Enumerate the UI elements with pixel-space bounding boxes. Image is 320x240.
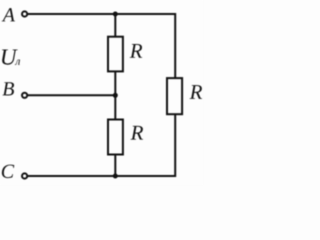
svg-text:R: R	[129, 39, 143, 63]
junction dot at node A / middle branch	[113, 12, 118, 17]
junction dot at node B / middle branch	[113, 93, 118, 98]
wire: middle branch segment from R1 through node B to resistor R2	[114, 72, 116, 121]
wire: right branch vertical lower segment	[174, 114, 176, 177]
terminal B (open circle)	[22, 93, 27, 98]
terminal C (open circle)	[22, 173, 27, 178]
resistor R1 (between A and B)	[108, 37, 123, 72]
svg-text:R: R	[130, 121, 144, 145]
svg-text:R: R	[189, 80, 203, 104]
resistor R2 (between B and C)	[108, 120, 123, 155]
resistor R3 (right branch between A and C)	[167, 78, 182, 114]
wire: phase B horizontal from terminal B to middle branch junction	[28, 94, 115, 96]
svg-text:A: A	[1, 4, 16, 26]
wire: middle branch segment from R2 to bottom C line	[114, 155, 116, 178]
wire: phase C bottom horizontal from terminal C to right branch	[28, 175, 176, 177]
svg-text:B: B	[2, 78, 14, 100]
svg-text:л: л	[14, 56, 20, 68]
wire: right branch vertical upper segment	[174, 13, 176, 79]
svg-text:C: C	[1, 161, 15, 183]
terminal A (open circle)	[22, 11, 27, 16]
junction dot at bottom C line / middle branch	[113, 174, 118, 179]
wire: middle branch segment from node A line to resistor R1	[114, 13, 116, 37]
wire: phase A horizontal from terminal A to right branch	[28, 13, 176, 15]
